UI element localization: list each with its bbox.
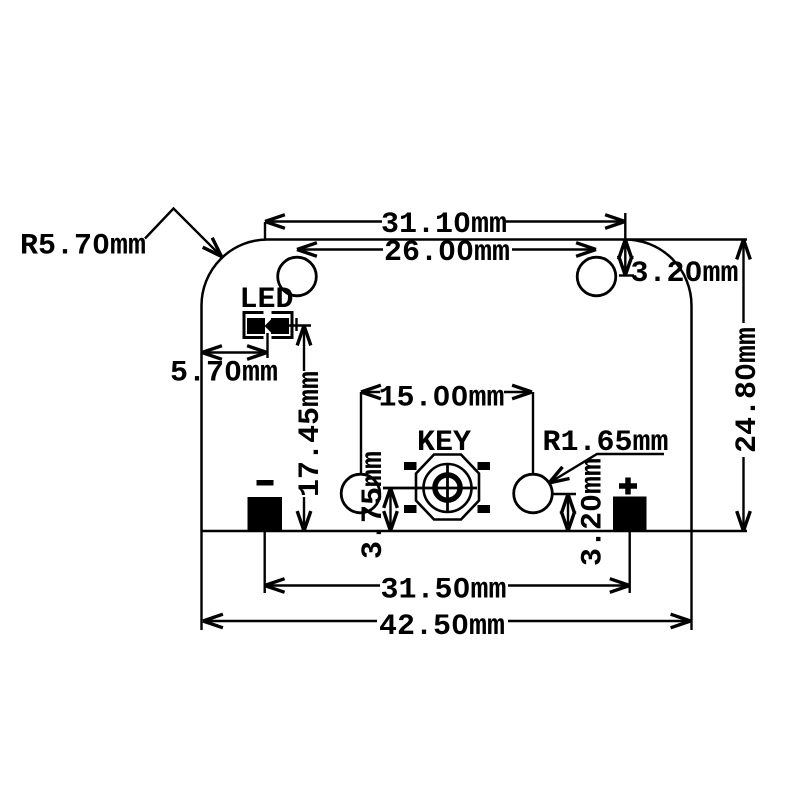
arrow 17.45 up: [297, 326, 311, 346]
board outline: [202, 239, 748, 531]
KEY crosshair vertical: [446, 464, 449, 512]
svg-text:5.70mm: 5.70mm: [170, 357, 278, 391]
leader R5.70mm: [145, 209, 222, 257]
arrow 31.50 right: [610, 579, 630, 593]
leader R1.65mm: [549, 454, 664, 483]
arrow 24.80 up: [737, 240, 751, 260]
plus sign: [619, 478, 637, 495]
arrow 5.70 left: [202, 346, 222, 360]
arrow 5.70 right: [247, 346, 267, 360]
arrow 26.00 left: [297, 243, 317, 257]
dim line 15.00mm: [361, 391, 532, 393]
LED center line: [266, 333, 268, 358]
arrow 3.75 down: [384, 511, 398, 531]
extension tick left of 31.10: [264, 222, 266, 240]
dim line 42.50mm: [203, 620, 691, 622]
arrow 31.10 left: [265, 215, 285, 229]
KEY pad bottom-left: [404, 505, 417, 513]
svg-text:3.75mm: 3.75mm: [357, 451, 391, 559]
extension line 15.00 left: [360, 392, 362, 474]
svg-text:17.45mm: 17.45mm: [294, 371, 328, 497]
dim line 3.20mm bottom: [567, 494, 569, 531]
arrow 3.75 up: [384, 488, 398, 508]
extension line board left: [200, 531, 202, 630]
svg-text:R1.65mm: R1.65mm: [542, 426, 668, 460]
KEY crosshair horizontal: [383, 487, 477, 490]
svg-text:3.20mm: 3.20mm: [577, 458, 611, 566]
arrow 42.50 right: [671, 614, 691, 628]
LED extension line: [288, 324, 311, 326]
dim line 5.70mm: [202, 351, 268, 353]
KEY octagon body: [416, 455, 479, 520]
minus pad: [248, 497, 283, 531]
arrow 26.00 right: [576, 243, 596, 257]
arrow 42.50 left: [203, 614, 223, 628]
LED pad right: [271, 318, 289, 334]
svg-text:KEY: KEY: [417, 426, 471, 460]
arrow 31.50 left: [265, 579, 285, 593]
arrow 3.20 bottom down: [561, 511, 575, 531]
arrow 31.10 right: [605, 215, 625, 229]
extension line right of 31.10 / 3.20: [624, 213, 626, 276]
dim line 31.50mm: [265, 584, 630, 586]
KEY inner circle: [435, 475, 460, 500]
KEY pad top-right: [478, 462, 491, 470]
extension line hole to 3.20: [552, 493, 576, 495]
extension line 15.00 right: [532, 392, 534, 473]
LED pad left: [247, 318, 265, 334]
hole H4 bottom-right: [514, 474, 553, 513]
KEY pad bottom-right: [478, 505, 491, 513]
arrow 15.00 right: [512, 385, 532, 399]
arrow 3.20 bottom up: [561, 494, 575, 514]
LED cathode mark: [265, 320, 272, 333]
hole H1 top-left: [278, 257, 317, 296]
extension line board right: [690, 531, 692, 630]
KEY outer circle: [424, 464, 472, 512]
arrow 3.20 top down: [619, 256, 633, 276]
arrow R5.70 leader: [203, 238, 222, 257]
extension line plus pad: [629, 531, 631, 593]
LED footprint outline: [244, 313, 292, 338]
KEY pad top-left: [404, 462, 417, 470]
dim line 26.00mm: [297, 248, 596, 250]
hole H3 bottom-left: [341, 474, 380, 513]
dim line 3.75mm: [389, 488, 391, 531]
dim line 24.80mm: [742, 240, 744, 532]
extension line minus pad: [264, 531, 266, 593]
arrow R1.65 leader: [549, 467, 570, 483]
svg-text:R5.70mm: R5.70mm: [20, 230, 146, 264]
svg-text:3.20mm: 3.20mm: [630, 257, 738, 291]
LED extension tick: [295, 318, 297, 331]
tick at hole center 3.20 top: [619, 274, 634, 276]
svg-text:24.80mm: 24.80mm: [731, 327, 765, 453]
plus pad: [613, 497, 647, 532]
svg-text:31.50mm: 31.50mm: [380, 574, 506, 608]
dim line 17.45mm: [303, 326, 305, 532]
hole H2 top-right: [577, 257, 616, 296]
svg-text:LED: LED: [239, 283, 293, 317]
svg-text:42.50mm: 42.50mm: [379, 610, 505, 644]
arrow 24.80 down: [737, 511, 751, 531]
dim line 31.10mm: [265, 220, 625, 222]
minus sign: [257, 480, 274, 486]
arrow 17.45 down: [297, 511, 311, 531]
arrow 15.00 left: [361, 385, 381, 399]
arrow 3.20 top up: [619, 240, 633, 260]
